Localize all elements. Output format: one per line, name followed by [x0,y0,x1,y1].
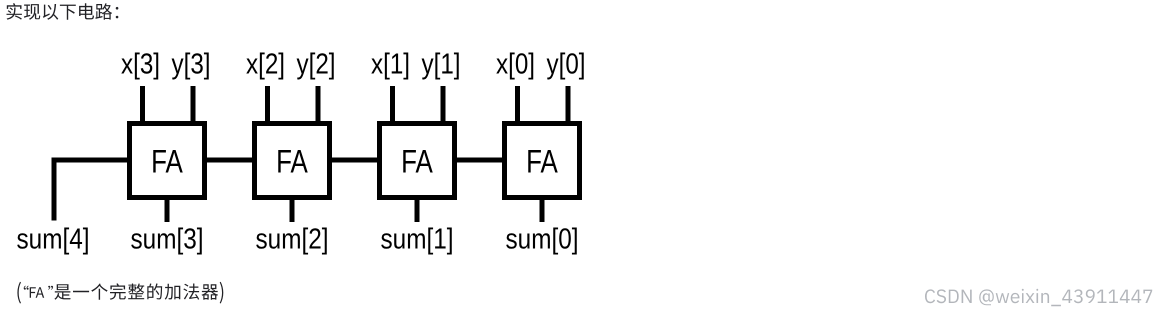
svg-text:sum[0]: sum[0] [506,223,579,255]
svg-text:y[2]: y[2] [297,48,336,80]
wire carry-out horizontal (from FA1 to left elbow) [52,158,130,163]
svg-text:y[1]: y[1] [422,48,461,80]
svg-text:x[0]: x[0] [496,48,535,80]
svg-text:sum[1]: sum[1] [381,223,454,255]
wire carry FA1-FA2 [204,158,255,163]
wire carry FA2-FA3 [329,158,380,163]
svg-text:sum[2]: sum[2] [256,223,329,255]
wire input x[0] [515,86,520,124]
full adder FA1 (bit 3) [130,124,205,198]
svg-text:FA: FA [401,144,433,180]
caption bottom: ("FA"是一个完整的加法器) [17,282,223,304]
full adder FA3 (bit 1) [380,124,455,198]
caption top: 实现以下电路： [7,3,119,20]
watermark CSDN @weixin_43911447 [925,289,1152,306]
svg-text:x[3]: x[3] [121,48,160,80]
wire output sum[1] [415,198,420,222]
full adder FA2 (bit 2) [255,124,330,198]
wire input x[1] [390,86,395,124]
svg-text:sum[4]: sum[4] [17,223,90,255]
wire output sum[0] [540,198,545,222]
svg-text:y[0]: y[0] [547,48,586,80]
wire carry-out vertical leg down to sum[4] [52,158,57,221]
svg-text:y[3]: y[3] [172,48,211,80]
wire input x[2] [265,86,270,124]
svg-text:FA: FA [151,144,183,180]
svg-text:x[2]: x[2] [246,48,285,80]
wire input y[2] [316,86,321,124]
wire input y[1] [441,86,446,124]
wire input y[3] [191,86,196,124]
wire output sum[2] [290,198,295,222]
wire output sum[3] [165,198,170,222]
svg-text:FA: FA [276,144,308,180]
wire carry FA3-FA4 [454,158,505,163]
svg-text:sum[3]: sum[3] [131,223,204,255]
wire input x[3] [140,86,145,124]
svg-text:FA: FA [526,144,558,180]
full adder FA4 (bit 0) [505,124,580,198]
svg-text:x[1]: x[1] [371,48,410,80]
wire input y[0] [566,86,571,124]
